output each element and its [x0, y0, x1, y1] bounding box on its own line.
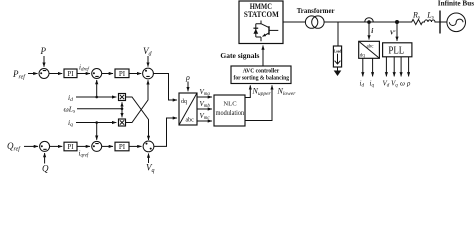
wire S2 to PI2 [102, 73, 114, 75]
wire wLs horizontal [77, 108, 122, 110]
NLC modulation block [214, 95, 245, 126]
svg-text:Vq: Vq [391, 80, 398, 89]
wire Vma [197, 96, 212, 98]
wire down to load [337, 22, 339, 46]
svg-text:STATCOM: STATCOM [244, 10, 279, 19]
svg-text:Pref: Pref [12, 69, 26, 81]
wire T2 to PI4 [102, 145, 114, 147]
summing junction T3 [143, 141, 154, 152]
transformer T1 [305, 16, 317, 28]
svg-text:ρ: ρ [406, 80, 411, 88]
wire to source [435, 21, 447, 23]
svg-text:ωLs: ωLs [64, 105, 76, 115]
svg-text:PI: PI [67, 143, 74, 151]
PI block PI3 [64, 142, 77, 151]
AVC controller block [231, 66, 291, 84]
wire id feedback up into S2 [96, 80, 98, 97]
svg-text:Nupper: Nupper [252, 87, 272, 97]
wire rho out [408, 57, 410, 77]
wire Pref to S1 [28, 73, 38, 75]
current sensor [365, 18, 374, 22]
svg-text:Q: Q [42, 164, 49, 174]
resistor Rs [406, 19, 423, 24]
svg-text:Gate signals: Gate signals [220, 51, 259, 60]
svg-text:Vq: Vq [146, 163, 155, 175]
summing junction T2 [92, 141, 102, 151]
svg-text:abc: abc [367, 45, 375, 50]
svg-text:AVC controller: AVC controller [243, 68, 280, 75]
load [333, 46, 341, 67]
svg-text:Vd: Vd [383, 80, 390, 89]
svg-text:ρ: ρ [185, 73, 190, 82]
svg-text:Infinite Bus: Infinite Bus [438, 0, 474, 8]
infinite bus source [447, 13, 466, 32]
wire id to M1 [76, 96, 116, 98]
wire S1 to PI1 [49, 73, 62, 75]
ground [337, 67, 339, 71]
wire wLs down into M2 [121, 109, 123, 118]
wire Nlower to AVC [245, 85, 272, 120]
wire Vmb [197, 108, 212, 110]
wire M2 output cross up into S3 [126, 80, 149, 122]
summing junction T1 [40, 141, 50, 151]
wire current into abcdq [368, 23, 370, 39]
PLL block [383, 43, 412, 57]
svg-text:modulation: modulation [216, 110, 245, 117]
svg-text:Load: Load [334, 48, 342, 53]
svg-text:Vd: Vd [143, 46, 153, 58]
multiplier M1 [119, 94, 126, 101]
wire Vd down into S3 [147, 56, 149, 67]
svg-text:Ls: Ls [426, 10, 434, 20]
svg-text:PLL: PLL [388, 46, 404, 57]
svg-text:Qref: Qref [7, 141, 21, 153]
wire PI4 to T3 [129, 145, 142, 147]
wire Nupper to AVC [245, 85, 250, 97]
svg-text:abc: abc [186, 118, 195, 124]
svg-text:iqref: iqref [79, 149, 89, 158]
wire iq to M2 [76, 122, 116, 124]
svg-text:idref: idref [79, 64, 89, 73]
summing junction S2 [92, 69, 102, 79]
svg-text:Vmb: Vmb [200, 100, 211, 109]
wire PI3 to T2 [77, 145, 90, 147]
svg-text:V′: V′ [390, 30, 396, 37]
summing junction S1 [39, 69, 49, 79]
svg-text:NLC: NLC [223, 101, 237, 108]
wire wLs up into M1 [121, 102, 123, 108]
wire gate signals AVC to HMMC [262, 46, 264, 67]
wire T1 to PI3 [49, 145, 62, 147]
diode D1 [253, 27, 258, 29]
wire HMMC to transformer [283, 21, 306, 23]
wire V' into PLL [396, 22, 398, 41]
svg-text:Vmc: Vmc [200, 112, 211, 121]
wire rho into dq block [187, 82, 189, 92]
node V' tap [395, 20, 399, 24]
wire id out [362, 58, 364, 76]
wire PI2 to S3 [129, 73, 141, 75]
svg-text:ω: ω [400, 80, 405, 88]
wire PI1 to S2 [77, 73, 90, 75]
PI block PI4 [115, 142, 129, 151]
multiplier M2 [119, 119, 126, 126]
svg-text:iq: iq [68, 118, 73, 128]
transistor body Q1 [268, 26, 270, 35]
dq-abc transform U1 [179, 93, 197, 125]
wire T3 output to dq block [154, 118, 177, 146]
wire Vmc [197, 120, 212, 122]
svg-text:i: i [371, 27, 373, 35]
wire Vq up into T3 [148, 154, 150, 164]
wire P down into S1 [43, 56, 45, 67]
wire M1 output cross down into T3 [126, 97, 149, 140]
wire S3 output to dq block [153, 74, 177, 101]
IGBT Q1 with diode D1 [256, 21, 261, 42]
wire Vq out [393, 57, 395, 77]
PI block PI1 [64, 69, 77, 78]
inductor Ls [423, 20, 441, 22]
summing junction S3 [143, 68, 154, 79]
svg-text:P: P [40, 46, 47, 56]
svg-text:PI: PI [67, 70, 74, 78]
wire w out [400, 57, 402, 77]
svg-text:PI: PI [119, 70, 126, 78]
wire Qref to T1 [24, 145, 38, 147]
svg-text:dq: dq [181, 99, 187, 105]
bus bar [439, 11, 441, 34]
svg-text:Vma: Vma [200, 88, 211, 97]
svg-text:Transformer: Transformer [297, 6, 336, 15]
svg-text:id: id [68, 93, 73, 103]
wire iq out [372, 58, 374, 76]
svg-text:iq: iq [370, 80, 375, 89]
wire transformer to bus [324, 21, 406, 23]
abc-dq transform U2 [359, 41, 380, 58]
PI block PI2 [115, 69, 129, 78]
wire Q up into T1 [44, 153, 46, 164]
HMMC STATCOM block [239, 1, 283, 44]
svg-text:PI: PI [119, 143, 126, 151]
wire iq feedback down into T2 [96, 123, 98, 140]
svg-text:dq: dq [360, 54, 366, 59]
wire Vd out [385, 57, 387, 77]
svg-text:for sorting & balancing: for sorting & balancing [234, 75, 290, 82]
svg-text:Nlower: Nlower [277, 87, 297, 97]
svg-text:id: id [360, 80, 365, 89]
